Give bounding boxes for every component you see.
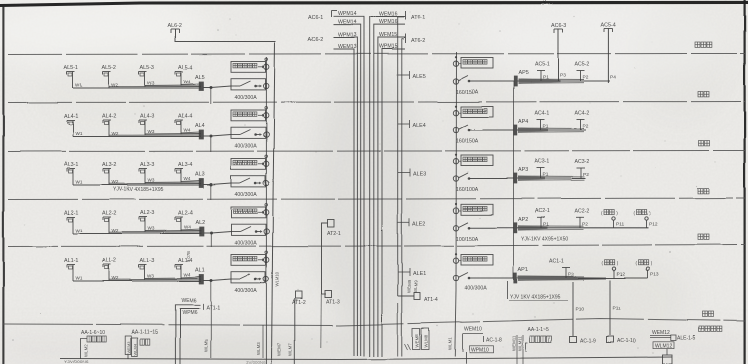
wire W4 drop bbox=[181, 270, 191, 279]
floor line y54 bbox=[8, 54, 745, 55]
svg-text:160/150A: 160/150A bbox=[456, 139, 479, 145]
riser bundle B line 1 bbox=[398, 17, 404, 357]
risers below WEM6 bbox=[175, 305, 200, 364]
svg-text:WEM12: WEM12 bbox=[652, 330, 670, 336]
panel group AA-1-6~10 bbox=[81, 330, 107, 359]
riser label WLM11 bbox=[518, 335, 524, 364]
svg-text:W3: W3 bbox=[148, 81, 155, 86]
connector AT1-4 bbox=[398, 293, 438, 304]
connector AP3 bbox=[514, 168, 528, 184]
feeder riser right box column WLM1 bbox=[455, 52, 457, 357]
svg-text:WEM8: WEM8 bbox=[414, 334, 419, 348]
svg-text:AC5-2: AC5-2 bbox=[575, 62, 590, 68]
wire W2 drop bbox=[109, 77, 119, 88]
svg-text:P10: P10 bbox=[576, 307, 585, 313]
panel AL3-3 bbox=[139, 162, 154, 174]
reserved-socket box floor 5 bbox=[453, 56, 493, 68]
svg-text:AA-1-6~10: AA-1-6~10 bbox=[81, 330, 105, 336]
ALE1 bracket label bbox=[398, 268, 426, 277]
svg-text:AC3-2: AC3-2 bbox=[575, 159, 590, 165]
border frame right edge bbox=[743, 0, 745, 364]
svg-text:AL5-2: AL5-2 bbox=[102, 65, 116, 71]
svg-text:AL4-1: AL4-1 bbox=[64, 114, 78, 120]
svg-text:ALE1: ALE1 bbox=[413, 271, 426, 277]
riser stub below AL1 bbox=[210, 281, 212, 358]
floor line y151 bbox=[8, 151, 745, 152]
svg-text:W4: W4 bbox=[184, 272, 191, 277]
wire W1 drop bbox=[73, 174, 83, 185]
svg-text:P12: P12 bbox=[649, 221, 658, 227]
bus of AL5 bbox=[73, 83, 201, 88]
svg-text:WLM11: WLM11 bbox=[518, 336, 523, 351]
svg-text:AL3-3: AL3-3 bbox=[140, 162, 154, 168]
svg-text:0.07B: 0.07B bbox=[186, 251, 191, 262]
group WEM12 / ALE-1-5 bbox=[650, 330, 696, 364]
breaker switch floor 5 bbox=[453, 76, 514, 84]
svg-text:ALE3: ALE3 bbox=[413, 172, 426, 178]
svg-text:AL5: AL5 bbox=[195, 75, 205, 81]
riser stub below AL5 bbox=[210, 88, 212, 104]
svg-text:AC6-2: AC6-2 bbox=[308, 37, 323, 43]
tap AC5-1 bbox=[535, 62, 550, 82]
svg-text:W3: W3 bbox=[148, 129, 155, 134]
riser stub below AL2 bbox=[210, 234, 212, 248]
svg-text:AA-1-11~15: AA-1-11~15 bbox=[131, 330, 158, 336]
svg-text:AL5-3: AL5-3 bbox=[140, 65, 154, 71]
svg-text:AL4-4: AL4-4 bbox=[178, 114, 192, 120]
svg-text:AT1-2: AT1-2 bbox=[292, 300, 306, 306]
svg-text:400/300A: 400/300A bbox=[465, 286, 488, 292]
svg-text:AL2-2: AL2-2 bbox=[102, 211, 116, 217]
riser label WEM11 bbox=[512, 335, 518, 364]
reserved-socket box floor 3 bbox=[453, 154, 493, 166]
svg-text:W1: W1 bbox=[76, 180, 83, 185]
bottom cable tray line bbox=[60, 357, 672, 360]
reserved-socket box of AL5 bbox=[231, 58, 269, 72]
floor line y102 bbox=[8, 102, 745, 103]
svg-text:AC-1-8: AC-1-8 bbox=[486, 338, 502, 344]
tap AC3-1 bbox=[535, 159, 550, 179]
svg-text:WEM11: WEM11 bbox=[512, 335, 517, 351]
panel AL4-2 bbox=[102, 114, 116, 126]
svg-text:P2: P2 bbox=[583, 75, 589, 81]
wire AL6-2 riser WLM10 bbox=[175, 29, 275, 364]
ALE4 bracket label bbox=[398, 120, 426, 129]
connector AL3 bbox=[195, 172, 205, 188]
border frame left edge bbox=[2, 5, 4, 364]
drop P11 bbox=[607, 280, 636, 345]
bus of AP2 bbox=[517, 225, 648, 230]
svg-text:AT6-2: AT6-2 bbox=[411, 38, 425, 44]
reserved-socket box of AL4 bbox=[231, 107, 269, 121]
svg-text:P3: P3 bbox=[560, 73, 566, 79]
wire AC5-4 drop P4 bbox=[607, 29, 609, 84]
svg-text:P2: P2 bbox=[583, 172, 589, 178]
svg-text:AL2-4: AL2-4 bbox=[178, 211, 192, 217]
riser label WLM8 boxed bbox=[422, 329, 430, 350]
svg-text:WLM5: WLM5 bbox=[204, 339, 209, 352]
breaker switch floor 4 bbox=[453, 125, 514, 133]
tap AC4-2 bbox=[575, 111, 590, 131]
svg-text:AL2-3: AL2-3 bbox=[140, 211, 154, 217]
svg-text:P1: P1 bbox=[543, 124, 549, 130]
wire W1 drop bbox=[73, 223, 83, 234]
floor line y322 bbox=[3, 319, 745, 326]
panel AL3-1 bbox=[64, 162, 78, 174]
panel AL5-1 bbox=[64, 65, 78, 77]
wire W4 drop bbox=[181, 126, 191, 135]
wire W4 drop bbox=[181, 77, 191, 86]
svg-text:AC5-4: AC5-4 bbox=[601, 23, 616, 29]
svg-text:100/150A: 100/150A bbox=[456, 236, 479, 242]
feeder label AT6-1 bbox=[406, 11, 426, 21]
panel AL1-2 bbox=[102, 258, 116, 270]
connector AP2 bbox=[514, 217, 528, 233]
svg-text:AC4-1: AC4-1 bbox=[535, 111, 550, 117]
panel AL2-2 bbox=[102, 211, 116, 223]
wire W2 drop bbox=[109, 126, 119, 137]
wire W2 drop bbox=[109, 223, 119, 234]
svg-text:WLM9: WLM9 bbox=[413, 280, 418, 293]
svg-text:W4: W4 bbox=[184, 176, 191, 181]
panel AL1-1 bbox=[64, 258, 78, 270]
svg-text:400/300A: 400/300A bbox=[235, 95, 258, 101]
riser AT2-1 to AT1-3 bbox=[321, 220, 341, 349]
cable WEM13 bbox=[334, 44, 357, 356]
svg-text:WEM3: WEM3 bbox=[126, 341, 131, 354]
cable label row1 with bracket bbox=[508, 281, 569, 301]
cable WEM14 bbox=[334, 19, 361, 356]
svg-text:WLM1: WLM1 bbox=[448, 337, 453, 350]
wire AL1 to switch bbox=[203, 279, 231, 282]
riser AT1-2 bbox=[292, 292, 306, 364]
svg-text:AL1-1: AL1-1 bbox=[64, 258, 78, 264]
panel AL2-1 bbox=[64, 211, 78, 223]
panel AL5-3 bbox=[139, 65, 154, 77]
panel AL6-2 bbox=[167, 23, 181, 33]
ALE3 bracket label bbox=[398, 169, 426, 178]
svg-text:WEM9: WEM9 bbox=[407, 279, 412, 293]
riser stub below AL4 bbox=[210, 137, 212, 153]
reserved-socket box floor 2 bbox=[453, 203, 493, 215]
svg-text:AC1-1: AC1-1 bbox=[549, 259, 564, 265]
panel AL5-2 bbox=[102, 65, 116, 77]
svg-text:AL3: AL3 bbox=[195, 172, 205, 178]
svg-text:400/300A: 400/300A bbox=[235, 288, 258, 294]
svg-text:WEM6: WEM6 bbox=[182, 298, 197, 304]
tap AC2-2 bbox=[575, 208, 590, 228]
svg-text:AL1: AL1 bbox=[195, 268, 205, 274]
tap AC1-1 bbox=[549, 259, 574, 279]
svg-text:AL5-4: AL5-4 bbox=[178, 65, 192, 71]
connector AP5 bbox=[514, 70, 528, 86]
tap AC5-2 bbox=[575, 62, 590, 82]
svg-text:AL4-2: AL4-2 bbox=[102, 114, 116, 120]
panel group AA-1-11~15 bbox=[125, 330, 157, 359]
svg-text:160/100A: 160/100A bbox=[456, 187, 479, 193]
panel AL3-4 bbox=[175, 162, 192, 174]
svg-text:W1: W1 bbox=[76, 228, 83, 233]
svg-text:YJV 1KV 4X185+1X95: YJV 1KV 4X185+1X95 bbox=[510, 295, 561, 301]
svg-text:W1: W1 bbox=[76, 276, 83, 281]
svg-text:400/300A: 400/300A bbox=[235, 144, 258, 150]
svg-text:AL3-4: AL3-4 bbox=[178, 162, 192, 168]
floor label basement (4 chars) bbox=[699, 327, 704, 332]
floor label 3F bbox=[698, 188, 703, 193]
svg-text:P1: P1 bbox=[543, 221, 549, 227]
svg-text:P2: P2 bbox=[583, 124, 589, 130]
reserved-socket box of AL2 bbox=[231, 204, 269, 218]
panel AL1-3 bbox=[139, 258, 154, 270]
panel AL1-4 bbox=[175, 258, 192, 270]
svg-text:P11: P11 bbox=[616, 221, 625, 227]
svg-text:400/300A: 400/300A bbox=[235, 241, 258, 247]
svg-text:AT1-4: AT1-4 bbox=[424, 297, 438, 303]
cable WPM13 bbox=[334, 32, 358, 356]
svg-text:AC2-2: AC2-2 bbox=[575, 208, 590, 214]
svg-text:AP4: AP4 bbox=[518, 119, 528, 125]
bus of AP3 bbox=[517, 176, 585, 181]
wire W3 drop bbox=[145, 174, 155, 184]
svg-text:AT6-1: AT6-1 bbox=[411, 15, 425, 21]
bus of AL4 bbox=[73, 132, 201, 137]
wire W1 drop bbox=[73, 126, 83, 137]
svg-text:WLM10: WLM10 bbox=[275, 271, 280, 287]
wire W4 drop bbox=[181, 174, 191, 183]
svg-text:AC6-3: AC6-3 bbox=[551, 24, 566, 30]
wire W3 drop bbox=[145, 270, 155, 280]
svg-text:P1: P1 bbox=[543, 75, 549, 81]
wire W3 drop bbox=[145, 77, 155, 87]
svg-text:AC6-1: AC6-1 bbox=[308, 15, 323, 21]
connector AP4 bbox=[514, 119, 528, 135]
ALE2 bracket label bbox=[398, 218, 426, 227]
panel AC5-4 bbox=[601, 23, 616, 33]
escalator tap P13 bbox=[636, 260, 660, 278]
panel group AA-1-1~5 bbox=[526, 327, 551, 352]
reserved-socket box floor 4 bbox=[453, 105, 493, 117]
connector AL2 bbox=[195, 220, 205, 236]
breaker switch box of AL3 bbox=[231, 176, 269, 187]
riser WLM3 bbox=[256, 325, 263, 358]
feeder riser joining left breaker boxes bbox=[265, 57, 267, 364]
svg-text:ALE5: ALE5 bbox=[413, 74, 426, 80]
svg-text:Y3V/000N6: Y3V/000N6 bbox=[64, 360, 89, 364]
svg-text:AL5-1: AL5-1 bbox=[64, 65, 78, 71]
svg-text:AP2: AP2 bbox=[518, 217, 528, 223]
svg-text:W4: W4 bbox=[184, 79, 191, 84]
svg-text:3V/000N6: 3V/000N6 bbox=[246, 360, 266, 364]
AP riser chain bbox=[513, 81, 515, 278]
wire AL5 to switch bbox=[203, 86, 231, 89]
bus of AP5 bbox=[517, 79, 610, 84]
floor label 4F bbox=[698, 141, 703, 146]
riser label WEM8 boxed bbox=[413, 329, 421, 350]
svg-text:AL2: AL2 bbox=[195, 220, 205, 226]
bus of AL2 bbox=[73, 229, 201, 234]
panel AL4-4 bbox=[175, 114, 192, 126]
cable WPM14 bbox=[332, 11, 365, 357]
wire W1 drop bbox=[73, 77, 83, 88]
wire AL2 to switch bbox=[203, 232, 231, 235]
svg-text:P13: P13 bbox=[651, 272, 660, 278]
svg-text:AL1-3: AL1-3 bbox=[140, 258, 154, 264]
wire W2 drop bbox=[109, 270, 119, 281]
svg-text:P4: P4 bbox=[610, 75, 616, 81]
svg-text:WLM4: WLM4 bbox=[132, 343, 137, 355]
svg-text:W4: W4 bbox=[184, 225, 191, 230]
group WEM10 / AC-1-8 / WPM10 bbox=[463, 327, 503, 364]
group WEM6 / WPM6 / AT1-1 bbox=[182, 298, 220, 316]
tap AC3-2 bbox=[575, 159, 590, 179]
svg-text:WEM7: WEM7 bbox=[277, 342, 282, 356]
breaker switch box of AL1 bbox=[231, 272, 269, 283]
svg-text:W3: W3 bbox=[148, 226, 155, 231]
panel AL3-2 bbox=[102, 162, 116, 174]
reserved-socket box of AL3 bbox=[231, 155, 269, 169]
breaker switch box of AL5 bbox=[231, 79, 269, 90]
cable WPM16 bbox=[374, 19, 405, 356]
escalator tap P11 bbox=[601, 210, 625, 228]
svg-text:AL3-1: AL3-1 bbox=[64, 162, 78, 168]
svg-text:AL4-3: AL4-3 bbox=[140, 114, 154, 120]
floor line y199 bbox=[8, 198, 745, 200]
svg-text:WLM2: WLM2 bbox=[84, 344, 89, 357]
wire W3 drop bbox=[145, 223, 155, 233]
svg-text:AA-1-1~5: AA-1-1~5 bbox=[528, 327, 549, 333]
floor label 5F bbox=[698, 92, 703, 97]
cable WPM15 bbox=[379, 44, 405, 357]
breaker switch box of AL4 bbox=[231, 127, 269, 138]
svg-text:W3: W3 bbox=[148, 274, 155, 279]
feeder label AT6-2 bbox=[406, 34, 426, 44]
svg-text:AC-1-10: AC-1-10 bbox=[617, 339, 636, 345]
cable WEM16 bbox=[370, 11, 405, 356]
floor label 2F bbox=[698, 234, 703, 239]
svg-text:P12: P12 bbox=[617, 272, 626, 278]
svg-text:160/150A: 160/150A bbox=[456, 90, 479, 96]
svg-text:WLM7: WLM7 bbox=[288, 343, 293, 356]
tap AC4-1 bbox=[535, 111, 550, 131]
breaker switch floor 2 bbox=[453, 222, 514, 230]
cable WFM15 bbox=[378, 32, 405, 356]
svg-text:WEM10: WEM10 bbox=[464, 327, 482, 333]
escalator tap P12 bbox=[602, 260, 626, 278]
tap AC2-1 bbox=[535, 208, 550, 228]
floor label 1F bbox=[702, 312, 707, 317]
svg-text:AT2-1: AT2-1 bbox=[327, 231, 341, 237]
wire W2 drop bbox=[109, 174, 119, 185]
svg-text:WLM8: WLM8 bbox=[423, 334, 428, 347]
riser bundle B line 2 bbox=[402, 39, 411, 357]
drop P10 bbox=[570, 282, 597, 345]
svg-text:AT1-3: AT1-3 bbox=[326, 300, 340, 306]
border frame top bar bbox=[0, 2, 748, 5]
svg-text:AP3: AP3 bbox=[518, 168, 528, 174]
panel AL4-1 bbox=[64, 114, 78, 126]
svg-text:P1: P1 bbox=[543, 172, 549, 178]
connector AL1 bbox=[195, 268, 205, 284]
svg-text:P2: P2 bbox=[583, 221, 589, 227]
svg-text:AC-1-9: AC-1-9 bbox=[580, 339, 596, 345]
svg-text:WPM6: WPM6 bbox=[182, 310, 197, 316]
panel AL4-3 bbox=[139, 114, 154, 126]
svg-text:AC2-1: AC2-1 bbox=[535, 208, 550, 214]
wire W1 drop bbox=[73, 270, 83, 281]
wire AL3 to switch bbox=[203, 183, 231, 186]
wire AL4 to switch bbox=[203, 135, 231, 138]
bus of AL1 bbox=[73, 276, 201, 281]
svg-text:W3: W3 bbox=[148, 178, 155, 183]
svg-text:AL6-2: AL6-2 bbox=[167, 23, 181, 29]
svg-text:P11: P11 bbox=[613, 306, 622, 312]
panel AL5-4 bbox=[175, 65, 192, 77]
svg-text:AP5: AP5 bbox=[518, 70, 528, 76]
bus of AP4 bbox=[517, 128, 586, 133]
svg-text:P2: P2 bbox=[568, 272, 574, 278]
wire W3 drop bbox=[145, 126, 155, 136]
svg-text:YJV-1KV 4X95+1X50: YJV-1KV 4X95+1X50 bbox=[521, 237, 569, 243]
breaker switch box of AL2 bbox=[231, 224, 269, 235]
svg-text:WLM3: WLM3 bbox=[256, 342, 261, 355]
escalator tap P12 bbox=[634, 210, 658, 228]
svg-text:W1: W1 bbox=[76, 83, 83, 88]
svg-text:W1: W1 bbox=[76, 131, 83, 136]
connector AL4 bbox=[195, 123, 205, 139]
svg-text:400/300A: 400/300A bbox=[235, 192, 258, 198]
connector AL5 bbox=[195, 75, 205, 91]
svg-text:AC3-1: AC3-1 bbox=[535, 159, 550, 165]
svg-text:AL4: AL4 bbox=[195, 123, 205, 129]
panel AC6-3 bbox=[551, 24, 566, 34]
svg-text:AC4-2: AC4-2 bbox=[575, 111, 590, 117]
svg-text:YJV-1KV 4X185+1X95: YJV-1KV 4X185+1X95 bbox=[113, 187, 164, 193]
floor line y246 bbox=[8, 245, 745, 247]
connector AP1 bbox=[514, 267, 528, 283]
svg-text:ALE-1-5: ALE-1-5 bbox=[677, 336, 696, 342]
ALE5 bracket label bbox=[398, 71, 426, 80]
svg-text:AP1: AP1 bbox=[518, 267, 528, 273]
reserved-socket box of AL1 bbox=[231, 251, 269, 265]
svg-text:AC5-1: AC5-1 bbox=[535, 62, 550, 68]
svg-text:AL1-2: AL1-2 bbox=[102, 258, 116, 264]
svg-text:W4: W4 bbox=[184, 128, 191, 133]
svg-text:AL2-1: AL2-1 bbox=[64, 211, 78, 217]
breaker switch floor 3 bbox=[453, 173, 514, 181]
panel AL2-3 bbox=[139, 211, 154, 223]
wire AC6-3 drop P3 bbox=[557, 30, 559, 82]
svg-text:ALE2: ALE2 bbox=[413, 221, 426, 227]
riser stub below AL3 bbox=[210, 185, 212, 200]
panel AL2-4 bbox=[175, 211, 192, 223]
svg-text:AT1-1: AT1-1 bbox=[206, 305, 220, 311]
svg-text:ALE4: ALE4 bbox=[413, 123, 426, 129]
bus of AP1 bbox=[517, 276, 648, 281]
breaker switch floor 1 bbox=[453, 273, 514, 281]
floor label roof (3 chars) bbox=[695, 42, 700, 47]
bus of AL3 bbox=[73, 180, 201, 185]
reserved-socket box floor 1 bbox=[453, 253, 493, 265]
svg-text:AL3-2: AL3-2 bbox=[102, 162, 116, 168]
wire W4 drop bbox=[181, 223, 191, 232]
